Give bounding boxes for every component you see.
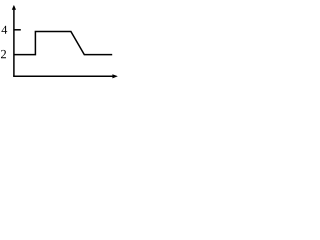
x-axis arrowhead (112, 74, 117, 78)
label 4 (1, 26, 7, 34)
y-axis (13, 7, 15, 77)
y-axis arrowhead (12, 5, 16, 10)
x-axis (13, 75, 116, 77)
tick 4 (14, 29, 21, 31)
label 2 (1, 50, 6, 58)
waveform: level-2 start, rising edge, level-4 top, ramp down, level-2 tail (14, 32, 112, 55)
